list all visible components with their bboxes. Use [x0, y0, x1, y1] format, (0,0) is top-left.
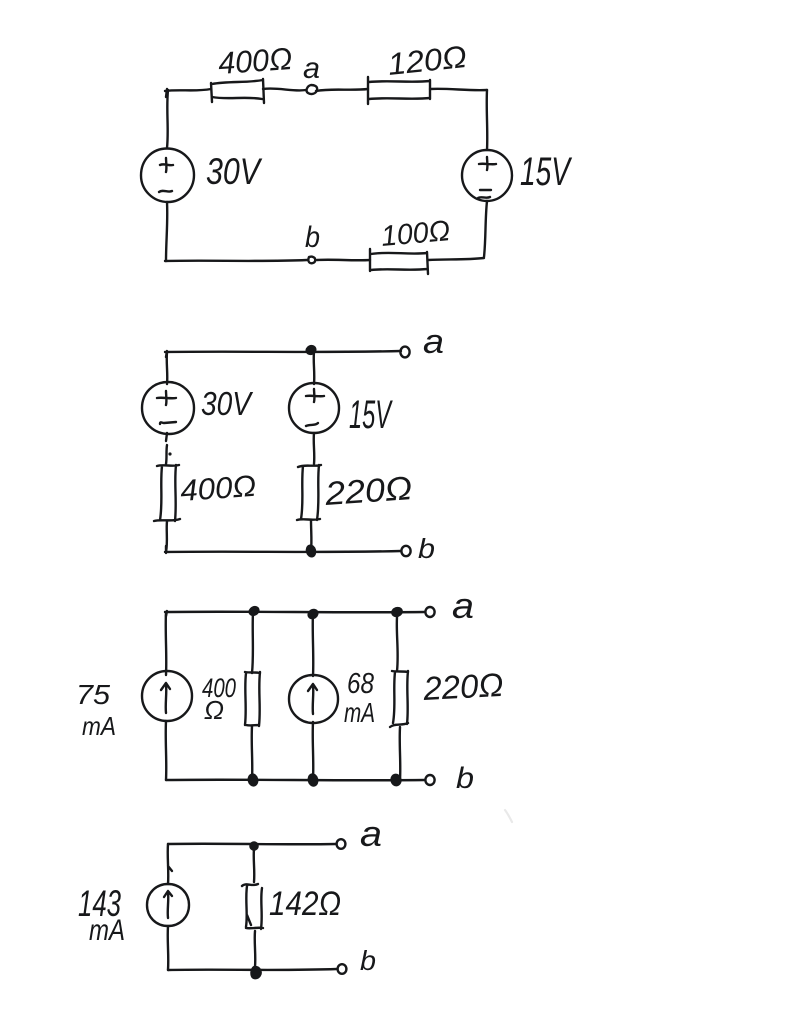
resistor 220ohm vertical box (circuit 3): [390, 671, 408, 727]
wire 142ohm resistor to bottom (circuit 4): [254, 931, 257, 967]
wire 400ohm box to bottom (circuit 3): [251, 726, 254, 780]
node b terminal (circuit 3): [425, 775, 434, 785]
node a terminal (circuit 3): [425, 607, 434, 617]
wire 75mA source to bottom (circuit 3): [165, 721, 168, 780]
plus sign of 30V source (circuit 1): [160, 158, 173, 172]
current source 68mA circle (circuit 3): [289, 675, 338, 723]
svg-text:a: a: [423, 323, 444, 361]
wire resistor to node a: [263, 89, 306, 91]
wire top to 220ohm box (circuit 3): [396, 617, 399, 671]
current source 143mA circle (circuit 4): [147, 884, 189, 926]
svg-text:Ω: Ω: [204, 695, 224, 725]
current source 75mA circle (circuit 3): [142, 671, 192, 721]
node b terminal (circuit 4): [338, 964, 347, 974]
wire left vertical below source (circuit 1): [166, 202, 167, 261]
resistor 120ohm horizontal box (circuit 1): [368, 77, 430, 104]
wire 400ohm resistor to bottom (circuit 2): [166, 521, 167, 552]
junction dot bottom 2 (circuit 3): [308, 774, 319, 787]
wire 30V source to 400ohm resistor (circuit 2): [166, 433, 167, 464]
wire bottom horizontal (circuit 4): [168, 969, 337, 970]
faint stray pencil mark: [505, 810, 512, 822]
resistor 142ohm vertical box (circuit 4): [242, 884, 263, 929]
wire node b to 100ohm resistor: [317, 259, 370, 262]
node a terminal (circuit 2): [400, 347, 409, 358]
svg-text:220Ω: 220Ω: [421, 666, 504, 707]
svg-text:mA: mA: [89, 914, 125, 947]
wire bottom horizontal (circuit 2): [165, 546, 401, 553]
junction dot top (circuit 4): [250, 842, 257, 849]
resistor 220ohm vertical box (circuit 2): [297, 465, 321, 520]
node a terminal (circuit 1): [307, 85, 318, 94]
svg-text:a: a: [360, 813, 382, 854]
voltage source 15V circle (circuit 1): [462, 150, 512, 201]
wire left vertical above source (circuit 1): [167, 90, 168, 148]
junction dot bottom 3 (circuit 3): [391, 774, 402, 786]
minus tilde of 30V source (circuit 1): [159, 191, 172, 192]
arrow inside 75mA source (circuit 3): [161, 683, 170, 713]
wire from top to 30V source (circuit 2): [166, 352, 169, 384]
voltage source 30V circle (circuit 2): [142, 382, 194, 434]
svg-text:a: a: [303, 52, 320, 85]
wire top to 400ohm box (circuit 3): [252, 612, 253, 673]
svg-text:15V: 15V: [520, 150, 572, 194]
svg-text:400Ω: 400Ω: [217, 41, 293, 81]
junction dot top 1 (circuit 3): [248, 606, 260, 617]
arrow inside 143mA source (circuit 4): [164, 891, 172, 918]
junction dot bottom (circuit 4): [251, 967, 260, 978]
resistor 100ohm horizontal box (circuit 1): [370, 249, 428, 274]
resistor 400ohm vertical box (circuit 3): [245, 672, 260, 726]
wire bottom horizontal (circuit 3): [166, 779, 425, 782]
wire 220ohm box to bottom (circuit 3): [399, 727, 402, 780]
junction dot bottom 1 (circuit 3): [248, 774, 258, 786]
wire 100ohm to bottom-right corner (circuit 1): [428, 258, 484, 260]
wire top horizontal (circuit 2): [165, 351, 401, 357]
svg-text:100Ω: 100Ω: [380, 215, 452, 253]
voltage source 30V circle (circuit 1): [141, 149, 194, 203]
junction dot bottom (circuit 2): [306, 545, 317, 558]
minus sign of 30V source (circuit 2): [160, 422, 176, 424]
svg-text:a: a: [452, 585, 474, 626]
svg-text:30V: 30V: [201, 385, 254, 422]
voltage source 15V circle (circuit 2): [289, 383, 339, 433]
resistor 400ohm horizontal box (circuit 1): [211, 79, 264, 103]
wire node a to 120ohm resistor: [316, 89, 368, 91]
wire top horizontal (circuit 3): [165, 611, 425, 616]
svg-text:b: b: [456, 762, 474, 795]
wire 68mA source to bottom (circuit 3): [312, 722, 315, 780]
svg-text:68: 68: [347, 668, 374, 700]
plus sign of 15V source (circuit 1): [479, 157, 496, 170]
svg-text:75: 75: [76, 679, 110, 710]
minus sign of 15V source (circuit 2): [306, 423, 318, 426]
minus sign of 15V source (circuit 1): [478, 190, 491, 198]
wire top to current source 68mA (circuit 3): [312, 612, 315, 676]
node b terminal (circuit 1): [308, 257, 315, 264]
svg-text:b: b: [418, 533, 435, 564]
junction dot top 2 (circuit 3): [307, 608, 319, 620]
resistor 400ohm vertical box (circuit 2): [154, 465, 180, 521]
wire right vertical top (circuit 1): [486, 90, 489, 150]
svg-text:mA: mA: [344, 697, 375, 728]
node b terminal (circuit 2): [401, 546, 410, 556]
junction dot top 3 (circuit 3): [391, 607, 403, 617]
svg-text:15V: 15V: [349, 393, 393, 437]
wire top to current source 75mA (circuit 3): [165, 612, 168, 675]
pen dot on wire (circuit 2): [168, 452, 171, 455]
svg-text:142Ω: 142Ω: [269, 885, 341, 923]
wire right vertical below 15V source (circuit 1): [484, 201, 487, 257]
arrow inside 68mA source (circuit 3): [308, 684, 317, 714]
wire from top to 15V source (circuit 2): [313, 352, 316, 384]
wire 143mA source to bottom (circuit 4): [167, 926, 170, 970]
wire bottom-left (circuit 1): [165, 260, 307, 261]
plus sign of 15V source (circuit 2): [306, 389, 324, 402]
svg-text:400Ω: 400Ω: [179, 470, 257, 508]
svg-text:120Ω: 120Ω: [386, 39, 468, 82]
wire top to current source 143mA (circuit 4): [168, 844, 172, 884]
wire top-left horizontal (circuit 1): [165, 89, 211, 97]
wire top to 142ohm resistor (circuit 4): [253, 849, 256, 882]
svg-text:220Ω: 220Ω: [323, 469, 413, 512]
svg-text:b: b: [305, 221, 320, 254]
node a terminal (circuit 4): [337, 839, 346, 849]
wire 120ohm to top-right corner: [430, 89, 487, 90]
svg-text:30V: 30V: [206, 151, 263, 192]
wire 15V source to 220ohm resistor (circuit 2): [313, 433, 316, 464]
wire 220ohm resistor to bottom (circuit 2): [310, 520, 313, 552]
plus sign of 30V source (circuit 2): [157, 391, 176, 405]
svg-text:b: b: [360, 945, 376, 976]
junction dot top (circuit 2): [305, 345, 316, 356]
wire top horizontal (circuit 4): [168, 843, 336, 846]
svg-text:mA: mA: [82, 711, 116, 741]
